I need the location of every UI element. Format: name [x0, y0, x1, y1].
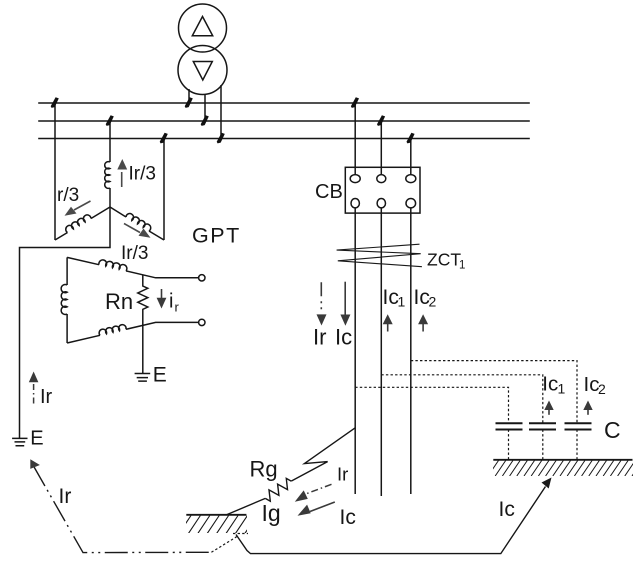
transformer T1: [178, 4, 227, 139]
capacitor C2: [565, 423, 592, 429]
bus line phase A: [39, 102, 529, 104]
winding GPT primary center: [105, 162, 110, 189]
svg-text:2: 2: [429, 294, 437, 310]
junction transformer-busB: [201, 115, 209, 126]
arrowhead Ic return: [542, 478, 552, 489]
arrow r/3: [65, 201, 91, 216]
svg-text:Ir: Ir: [313, 325, 326, 350]
wire CB down feeder 3: [410, 208, 412, 494]
circuit breaker CB: [345, 103, 420, 496]
arrow Ir (dash-dot, down): [317, 282, 327, 325]
wire busA drop to GPT: [54, 103, 56, 240]
wire secondary top rail: [67, 257, 199, 277]
winding GPT primary right: [126, 214, 151, 231]
arrow Ic1 (at capacitor): [544, 401, 553, 415]
wire CB down feeder 2: [380, 208, 382, 496]
arrow ir: [157, 289, 167, 309]
arrowhead Ir return: [30, 459, 40, 469]
wire busB drop to GPT coil: [109, 121, 111, 162]
wire Rg to earth electrode: [226, 498, 265, 515]
svg-text:Ir: Ir: [59, 485, 72, 508]
junction CB-busA: [351, 97, 359, 108]
svg-text:Ir/3: Ir/3: [121, 243, 148, 264]
wire star point to neutral: [20, 207, 111, 438]
arrow Ic1 (up): [383, 314, 393, 331]
terminal top: [199, 275, 205, 281]
wire busB to CB: [380, 121, 382, 175]
junction CB-busC: [407, 133, 415, 144]
GPT primary section: [20, 103, 165, 438]
svg-text:E: E: [153, 363, 167, 386]
svg-text:Rg: Rg: [250, 457, 278, 482]
junction GPT-busB: [106, 115, 114, 126]
wire transformer to bus A: [188, 89, 190, 103]
svg-text:Ic: Ic: [542, 373, 558, 396]
resistor Rg: [265, 478, 291, 501]
wire right diagonal of star: [110, 207, 164, 240]
terminal bottom: [199, 319, 205, 325]
junction transformer-busA: [185, 97, 193, 108]
GPT secondary open-delta: [61, 257, 205, 381]
svg-text:Ic: Ic: [414, 286, 430, 309]
wire transformer to bus B: [204, 94, 206, 121]
svg-text:E: E: [30, 428, 43, 450]
dotted link to fault electrode: [211, 537, 237, 553]
svg-text:GPT: GPT: [192, 224, 241, 248]
ground E (neutral, bottom left): [12, 438, 27, 445]
wire left diagonal of star: [55, 207, 110, 240]
winding secondary bottom: [99, 325, 126, 336]
svg-text:2: 2: [598, 381, 606, 397]
dotted cap leads to earth: [509, 430, 578, 461]
dotted cable feeder1 to C0 capacitor: [355, 387, 508, 423]
earth electrode right (hatched): [488, 460, 633, 476]
bus line phase B: [39, 120, 529, 122]
junction transformer-busC: [217, 133, 225, 144]
svg-text:Ir/3: Ir/3: [129, 164, 156, 185]
dotted cable feeder3 to C2 capacitor: [411, 361, 577, 423]
svg-text:1: 1: [398, 294, 406, 310]
capacitor C0: [496, 423, 523, 429]
svg-text:i: i: [169, 291, 173, 313]
svg-text:Rn: Rn: [105, 289, 133, 314]
dotted edge of fault electrode: [233, 533, 248, 535]
wire busA to CB: [354, 103, 356, 175]
svg-text:C: C: [604, 417, 621, 443]
svg-text:1: 1: [459, 260, 465, 272]
earth electrode left (hatched fault ground): [179, 515, 257, 534]
ground E (under Rn): [135, 374, 151, 382]
wire feeder tap to fault: [291, 428, 355, 481]
wire secondary left limb: [66, 257, 68, 343]
arrow Ir (neutral, up): [29, 372, 39, 404]
winding secondary left: [61, 285, 67, 315]
junction GPT-busA: [51, 97, 59, 108]
arrow Ir/3 bottom: [124, 224, 151, 238]
svg-text:CB: CB: [315, 181, 343, 203]
dash-dot return path Ir (to neutral earth): [34, 466, 212, 553]
fault branch with resistor Rg: [226, 428, 355, 515]
CB box: [345, 167, 420, 213]
winding secondary top: [99, 260, 127, 271]
junction CB-busB: [377, 115, 385, 126]
wire Rn to ground: [142, 326, 144, 374]
arrow Ic (solid, down): [340, 282, 350, 326]
wire CB down feeder 1: [354, 208, 356, 494]
resistor Rn: [138, 275, 148, 326]
arrow Ir (fault, dash-dot): [295, 484, 332, 502]
svg-text:Ic: Ic: [335, 325, 352, 350]
svg-text:Ig: Ig: [262, 500, 281, 526]
arrow Ic2 (up): [418, 314, 428, 331]
wire busC drop to GPT: [163, 139, 165, 241]
ZCT1 zero-phase CT: [337, 244, 422, 267]
svg-text:Ic: Ic: [340, 506, 356, 529]
arrow Ic2 (at capacitor): [583, 401, 592, 415]
winding GPT primary left: [66, 215, 91, 233]
capacitor C1: [529, 423, 556, 429]
wire coil to star point: [109, 188, 111, 207]
junction GPT-busC: [160, 133, 168, 144]
CB contact circles top: [350, 175, 360, 183]
wire secondary bottom rail: [67, 322, 199, 343]
arrow Ir/3 top: [117, 159, 127, 187]
svg-text:Ic: Ic: [499, 498, 515, 521]
svg-text:r/3: r/3: [57, 185, 79, 206]
CB contact circles bottom: [351, 199, 359, 208]
wire busC to CB: [410, 139, 412, 175]
dotted cable feeder2 to C1 capacitor: [381, 375, 543, 423]
arrow Ic (fault, solid): [298, 502, 335, 516]
bus line phase C: [39, 138, 529, 140]
svg-text:r: r: [175, 300, 180, 315]
solid return path Ic (fault to capacitor earth): [236, 487, 546, 554]
svg-text:Ir: Ir: [337, 464, 348, 485]
svg-text:Ic: Ic: [383, 286, 399, 309]
svg-text:Ir: Ir: [40, 386, 53, 408]
wire transformer to bus C: [220, 85, 222, 139]
svg-text:ZCT: ZCT: [427, 250, 461, 270]
svg-text:1: 1: [558, 381, 566, 397]
